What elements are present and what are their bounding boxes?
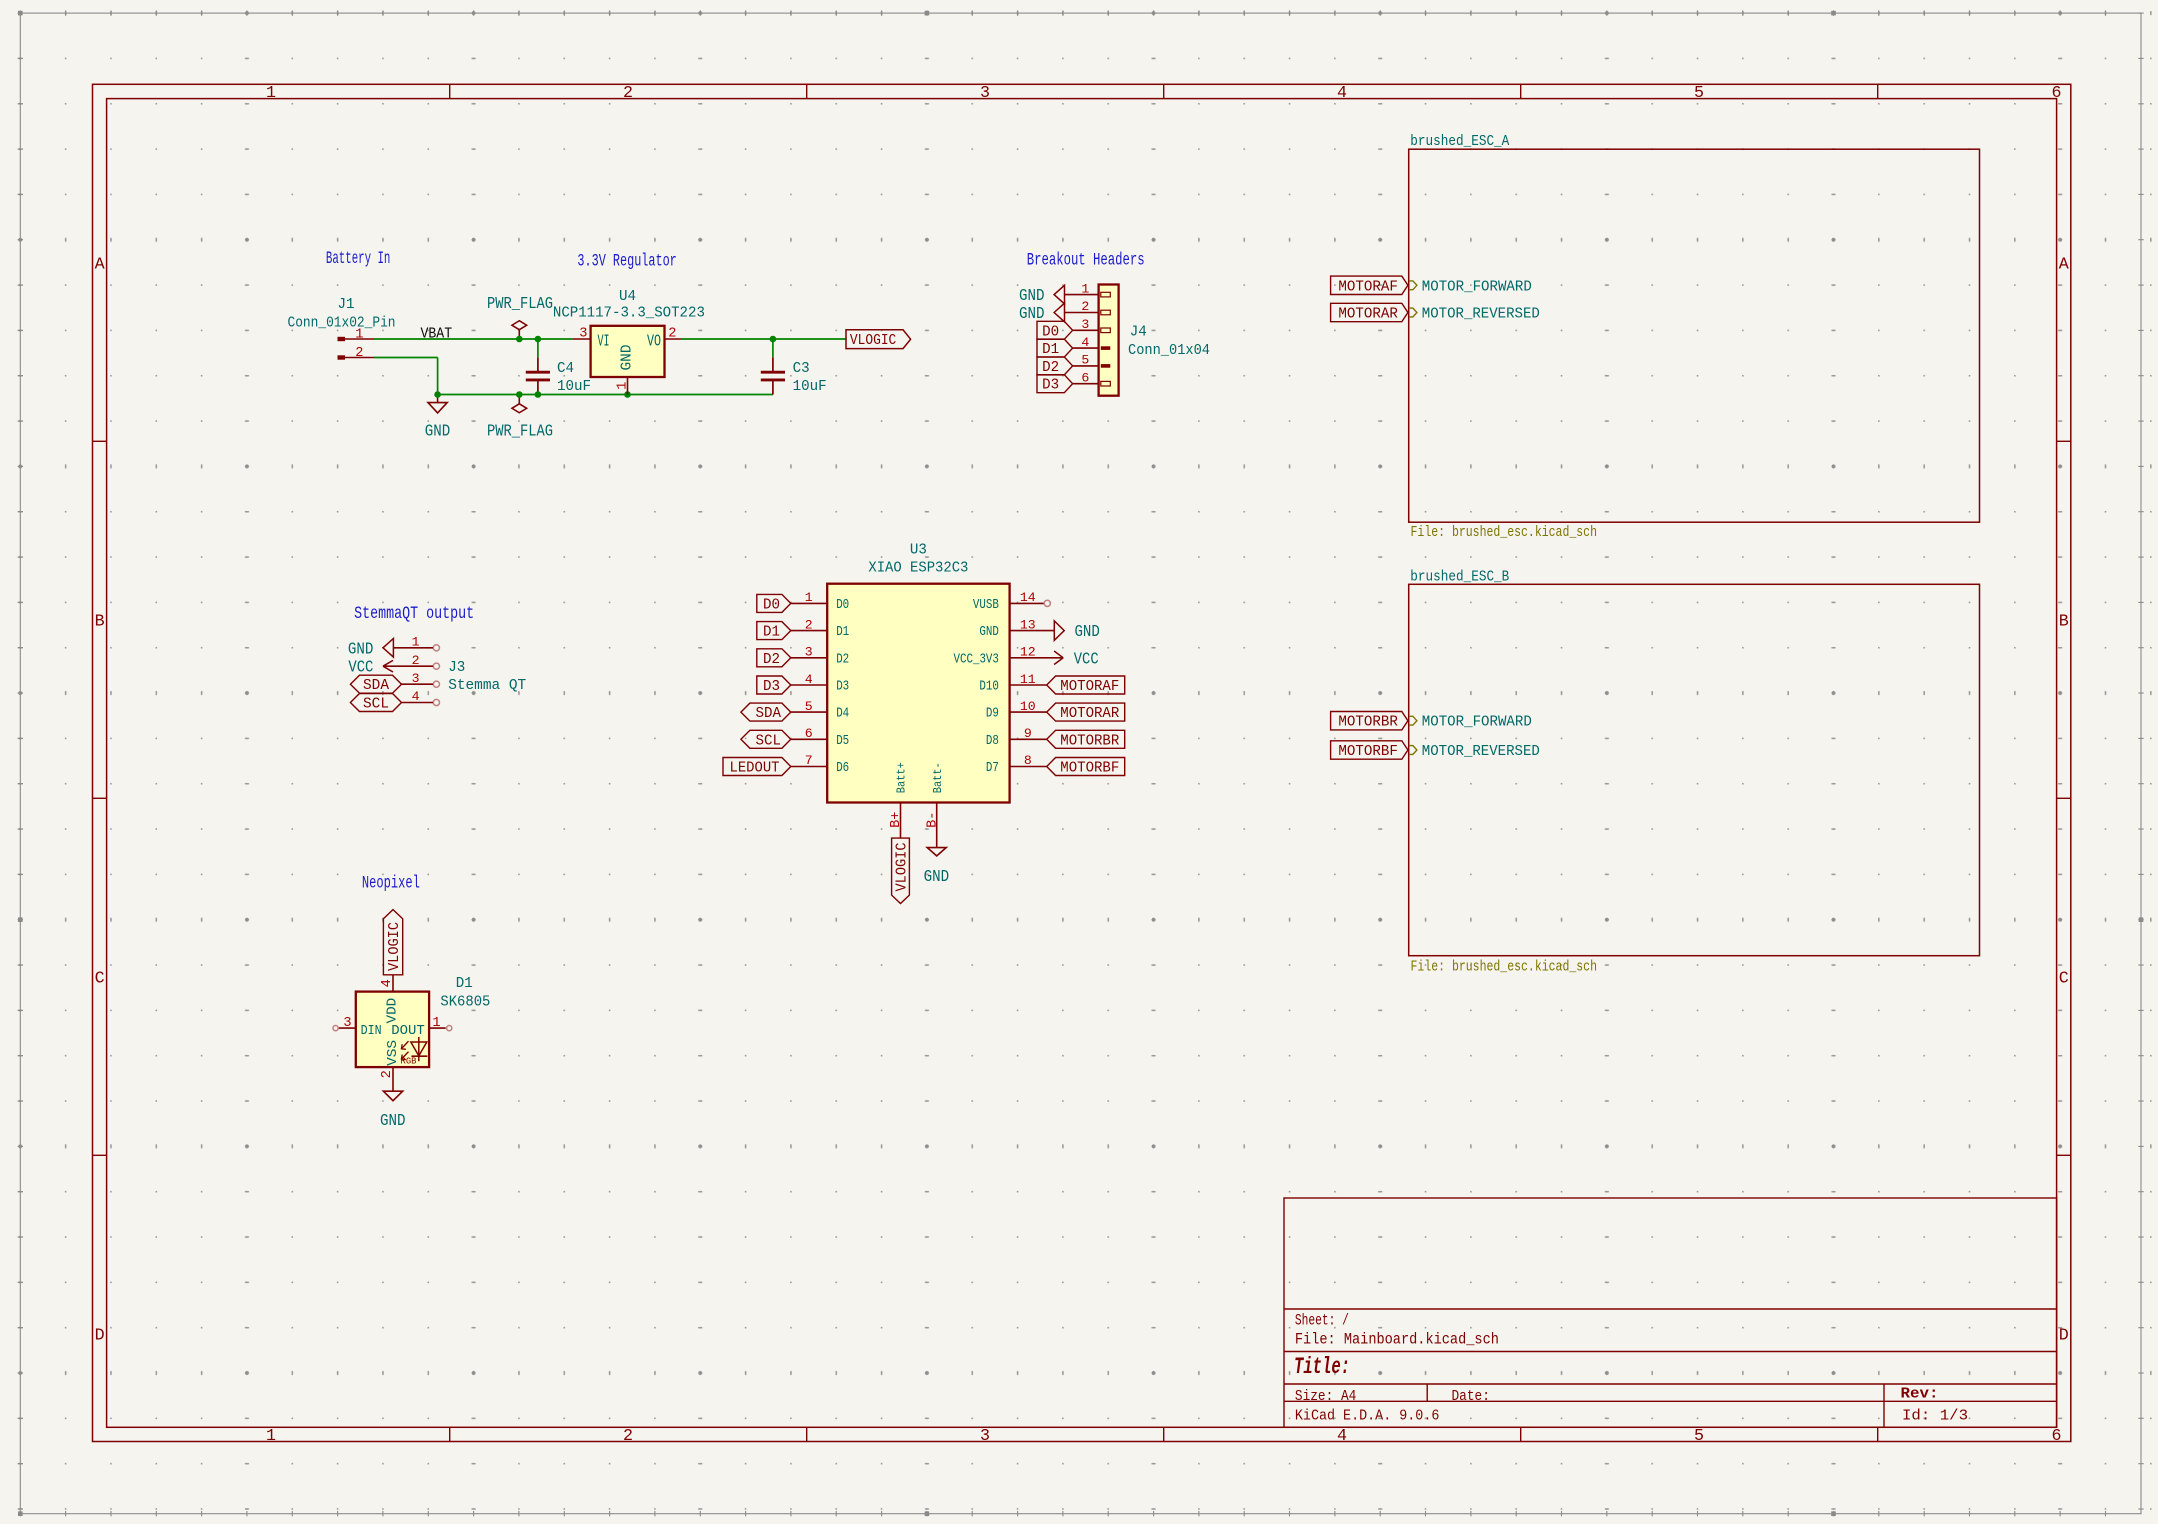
svg-text:6: 6 <box>2052 1427 2062 1446</box>
svg-text:LEDOUT: LEDOUT <box>730 759 780 777</box>
svg-text:4: 4 <box>805 672 813 687</box>
svg-text:brushed_ESC_B: brushed_ESC_B <box>1410 567 1509 585</box>
svg-text:1: 1 <box>266 1427 276 1446</box>
svg-text:Batt+: Batt+ <box>895 762 909 793</box>
svg-text:DOUT: DOUT <box>391 1024 425 1039</box>
svg-text:3: 3 <box>805 645 813 660</box>
svg-text:MOTOR_REVERSED: MOTOR_REVERSED <box>1422 742 1540 760</box>
svg-text:2: 2 <box>380 1070 395 1078</box>
svg-text:VO: VO <box>647 333 661 352</box>
svg-text:D8: D8 <box>986 734 999 749</box>
svg-text:B-: B- <box>925 812 940 828</box>
svg-text:VUSB: VUSB <box>973 598 999 613</box>
svg-text:MOTOR_FORWARD: MOTOR_FORWARD <box>1422 277 1532 295</box>
svg-text:VCC_3V3: VCC_3V3 <box>954 652 999 667</box>
svg-text:Sheet: /: Sheet: / <box>1295 1312 1349 1330</box>
svg-text:D: D <box>95 1327 105 1346</box>
svg-text:4: 4 <box>1337 1427 1347 1446</box>
svg-text:VSS: VSS <box>386 1040 401 1066</box>
svg-text:D3: D3 <box>836 680 849 695</box>
svg-text:D0: D0 <box>1042 322 1059 340</box>
svg-text:2: 2 <box>355 346 363 361</box>
svg-text:3: 3 <box>980 84 990 103</box>
svg-text:A: A <box>95 256 105 275</box>
svg-text:5: 5 <box>805 699 813 714</box>
svg-text:10uF: 10uF <box>557 377 591 395</box>
svg-text:3: 3 <box>343 1016 351 1031</box>
svg-text:D2: D2 <box>836 652 849 667</box>
svg-text:Breakout Headers: Breakout Headers <box>1027 251 1145 271</box>
svg-text:2: 2 <box>668 327 676 342</box>
svg-text:5: 5 <box>1694 84 1704 103</box>
svg-text:C4: C4 <box>557 359 574 377</box>
svg-text:5: 5 <box>1081 353 1089 368</box>
svg-text:B: B <box>95 613 105 632</box>
svg-text:D1: D1 <box>763 623 780 641</box>
svg-text:D6: D6 <box>836 761 849 776</box>
svg-text:MOTORAF: MOTORAF <box>1338 277 1398 295</box>
svg-text:D10: D10 <box>979 680 999 695</box>
svg-text:1: 1 <box>432 1016 440 1031</box>
svg-text:MOTORBF: MOTORBF <box>1338 742 1398 760</box>
svg-text:1: 1 <box>805 590 813 605</box>
svg-text:brushed_ESC_A: brushed_ESC_A <box>1410 132 1510 150</box>
svg-text:VLOGIC: VLOGIC <box>850 331 896 349</box>
svg-text:MOTOR_FORWARD: MOTOR_FORWARD <box>1422 713 1532 731</box>
svg-text:RGB: RGB <box>401 1056 417 1066</box>
svg-text:File: brushed_esc.kicad_sch: File: brushed_esc.kicad_sch <box>1411 957 1598 975</box>
svg-text:D4: D4 <box>836 707 849 722</box>
svg-text:Rev:: Rev: <box>1901 1385 1939 1403</box>
svg-text:Neopixel: Neopixel <box>362 874 420 894</box>
svg-text:6: 6 <box>1081 370 1089 385</box>
svg-text:D3: D3 <box>1042 376 1059 394</box>
svg-text:4: 4 <box>1081 335 1089 350</box>
svg-text:1: 1 <box>355 327 363 342</box>
svg-text:MOTORBR: MOTORBR <box>1060 731 1119 749</box>
svg-text:VLOGIC: VLOGIC <box>893 843 911 892</box>
svg-text:StemmaQT output: StemmaQT output <box>354 604 474 624</box>
svg-text:D2: D2 <box>1042 358 1059 376</box>
svg-text:B+: B+ <box>889 812 904 828</box>
svg-text:GND: GND <box>425 422 451 441</box>
svg-text:C: C <box>95 970 105 989</box>
svg-text:MOTORBF: MOTORBF <box>1060 759 1119 777</box>
svg-text:3: 3 <box>980 1427 990 1446</box>
svg-text:GND: GND <box>380 1112 406 1131</box>
svg-text:U3: U3 <box>910 540 927 558</box>
svg-text:Conn_01x02_Pin: Conn_01x02_Pin <box>288 313 396 331</box>
svg-text:Date:: Date: <box>1452 1387 1490 1405</box>
svg-text:MOTORBR: MOTORBR <box>1338 713 1398 731</box>
svg-text:D1: D1 <box>836 625 849 640</box>
svg-text:2: 2 <box>1081 299 1089 314</box>
svg-text:1: 1 <box>615 382 630 390</box>
svg-text:J1: J1 <box>338 295 355 313</box>
svg-text:SDA: SDA <box>363 676 390 694</box>
svg-text:NCP1117-3.3_SOT223: NCP1117-3.3_SOT223 <box>553 303 705 321</box>
svg-text:C: C <box>2059 970 2069 989</box>
svg-text:SK6805: SK6805 <box>440 993 490 1011</box>
svg-text:D: D <box>2059 1327 2069 1346</box>
svg-text:GND: GND <box>1075 623 1100 642</box>
svg-text:Batt-: Batt- <box>931 762 945 793</box>
svg-text:4: 4 <box>380 979 395 987</box>
svg-text:SDA: SDA <box>756 704 782 722</box>
svg-text:D1: D1 <box>1042 340 1059 358</box>
svg-text:GND: GND <box>924 868 950 887</box>
svg-text:6: 6 <box>805 726 813 741</box>
svg-text:MOTOR_REVERSED: MOTOR_REVERSED <box>1422 305 1540 323</box>
svg-text:D5: D5 <box>836 734 849 749</box>
svg-text:2: 2 <box>623 84 633 103</box>
svg-text:D2: D2 <box>763 650 780 668</box>
svg-text:VBAT: VBAT <box>421 325 453 343</box>
svg-text:Size: A4: Size: A4 <box>1295 1387 1356 1405</box>
svg-text:D1: D1 <box>456 974 473 992</box>
svg-text:Battery In: Battery In <box>326 249 391 269</box>
svg-text:VI: VI <box>598 333 610 352</box>
svg-text:10uF: 10uF <box>793 377 827 395</box>
svg-text:GND: GND <box>618 345 636 371</box>
svg-text:B: B <box>2059 613 2069 632</box>
svg-text:Id: 1/3: Id: 1/3 <box>1902 1406 1968 1424</box>
svg-text:MOTORAR: MOTORAR <box>1338 305 1398 323</box>
svg-text:VLOGIC: VLOGIC <box>385 922 403 971</box>
svg-text:Conn_01x04: Conn_01x04 <box>1128 341 1210 359</box>
svg-text:VCC: VCC <box>1074 650 1099 669</box>
svg-text:Stemma QT: Stemma QT <box>448 676 526 694</box>
svg-text:Title:: Title: <box>1294 1354 1350 1381</box>
svg-text:7: 7 <box>805 753 813 768</box>
svg-text:VDD: VDD <box>386 998 401 1024</box>
svg-text:D0: D0 <box>763 595 780 613</box>
svg-text:File: brushed_esc.kicad_sch: File: brushed_esc.kicad_sch <box>1411 523 1598 541</box>
svg-text:PWR_FLAG: PWR_FLAG <box>487 295 553 314</box>
svg-text:U4: U4 <box>619 287 636 305</box>
svg-text:1: 1 <box>266 84 276 103</box>
svg-text:2: 2 <box>623 1427 633 1446</box>
svg-text:GND: GND <box>979 625 999 640</box>
svg-text:D0: D0 <box>836 598 849 613</box>
svg-text:D9: D9 <box>986 707 999 722</box>
svg-text:J3: J3 <box>448 658 465 676</box>
svg-text:4: 4 <box>1337 84 1347 103</box>
svg-text:D7: D7 <box>986 761 999 776</box>
svg-text:MOTORAR: MOTORAR <box>1060 704 1119 722</box>
svg-text:D3: D3 <box>763 677 780 695</box>
svg-text:SCL: SCL <box>363 695 389 713</box>
svg-text:5: 5 <box>1694 1427 1704 1446</box>
svg-text:MOTORAF: MOTORAF <box>1060 677 1119 695</box>
svg-text:3.3V Regulator: 3.3V Regulator <box>577 251 676 271</box>
svg-text:A: A <box>2059 256 2069 275</box>
svg-text:DIN: DIN <box>361 1024 382 1039</box>
svg-text:1: 1 <box>1081 281 1089 296</box>
svg-text:3: 3 <box>579 327 587 342</box>
svg-text:J4: J4 <box>1130 323 1147 341</box>
svg-text:PWR_FLAG: PWR_FLAG <box>487 422 553 441</box>
svg-text:SCL: SCL <box>756 731 782 749</box>
svg-text:6: 6 <box>2052 84 2062 103</box>
svg-text:2: 2 <box>805 617 813 632</box>
svg-text:C3: C3 <box>793 359 810 377</box>
svg-text:KiCad E.D.A. 9.0.6: KiCad E.D.A. 9.0.6 <box>1295 1406 1440 1424</box>
svg-text:GND: GND <box>1019 287 1045 306</box>
svg-text:XIAO ESP32C3: XIAO ESP32C3 <box>868 559 968 577</box>
svg-text:3: 3 <box>1081 317 1089 332</box>
svg-text:File: Mainboard.kicad_sch: File: Mainboard.kicad_sch <box>1295 1331 1499 1349</box>
svg-text:GND: GND <box>348 640 374 659</box>
